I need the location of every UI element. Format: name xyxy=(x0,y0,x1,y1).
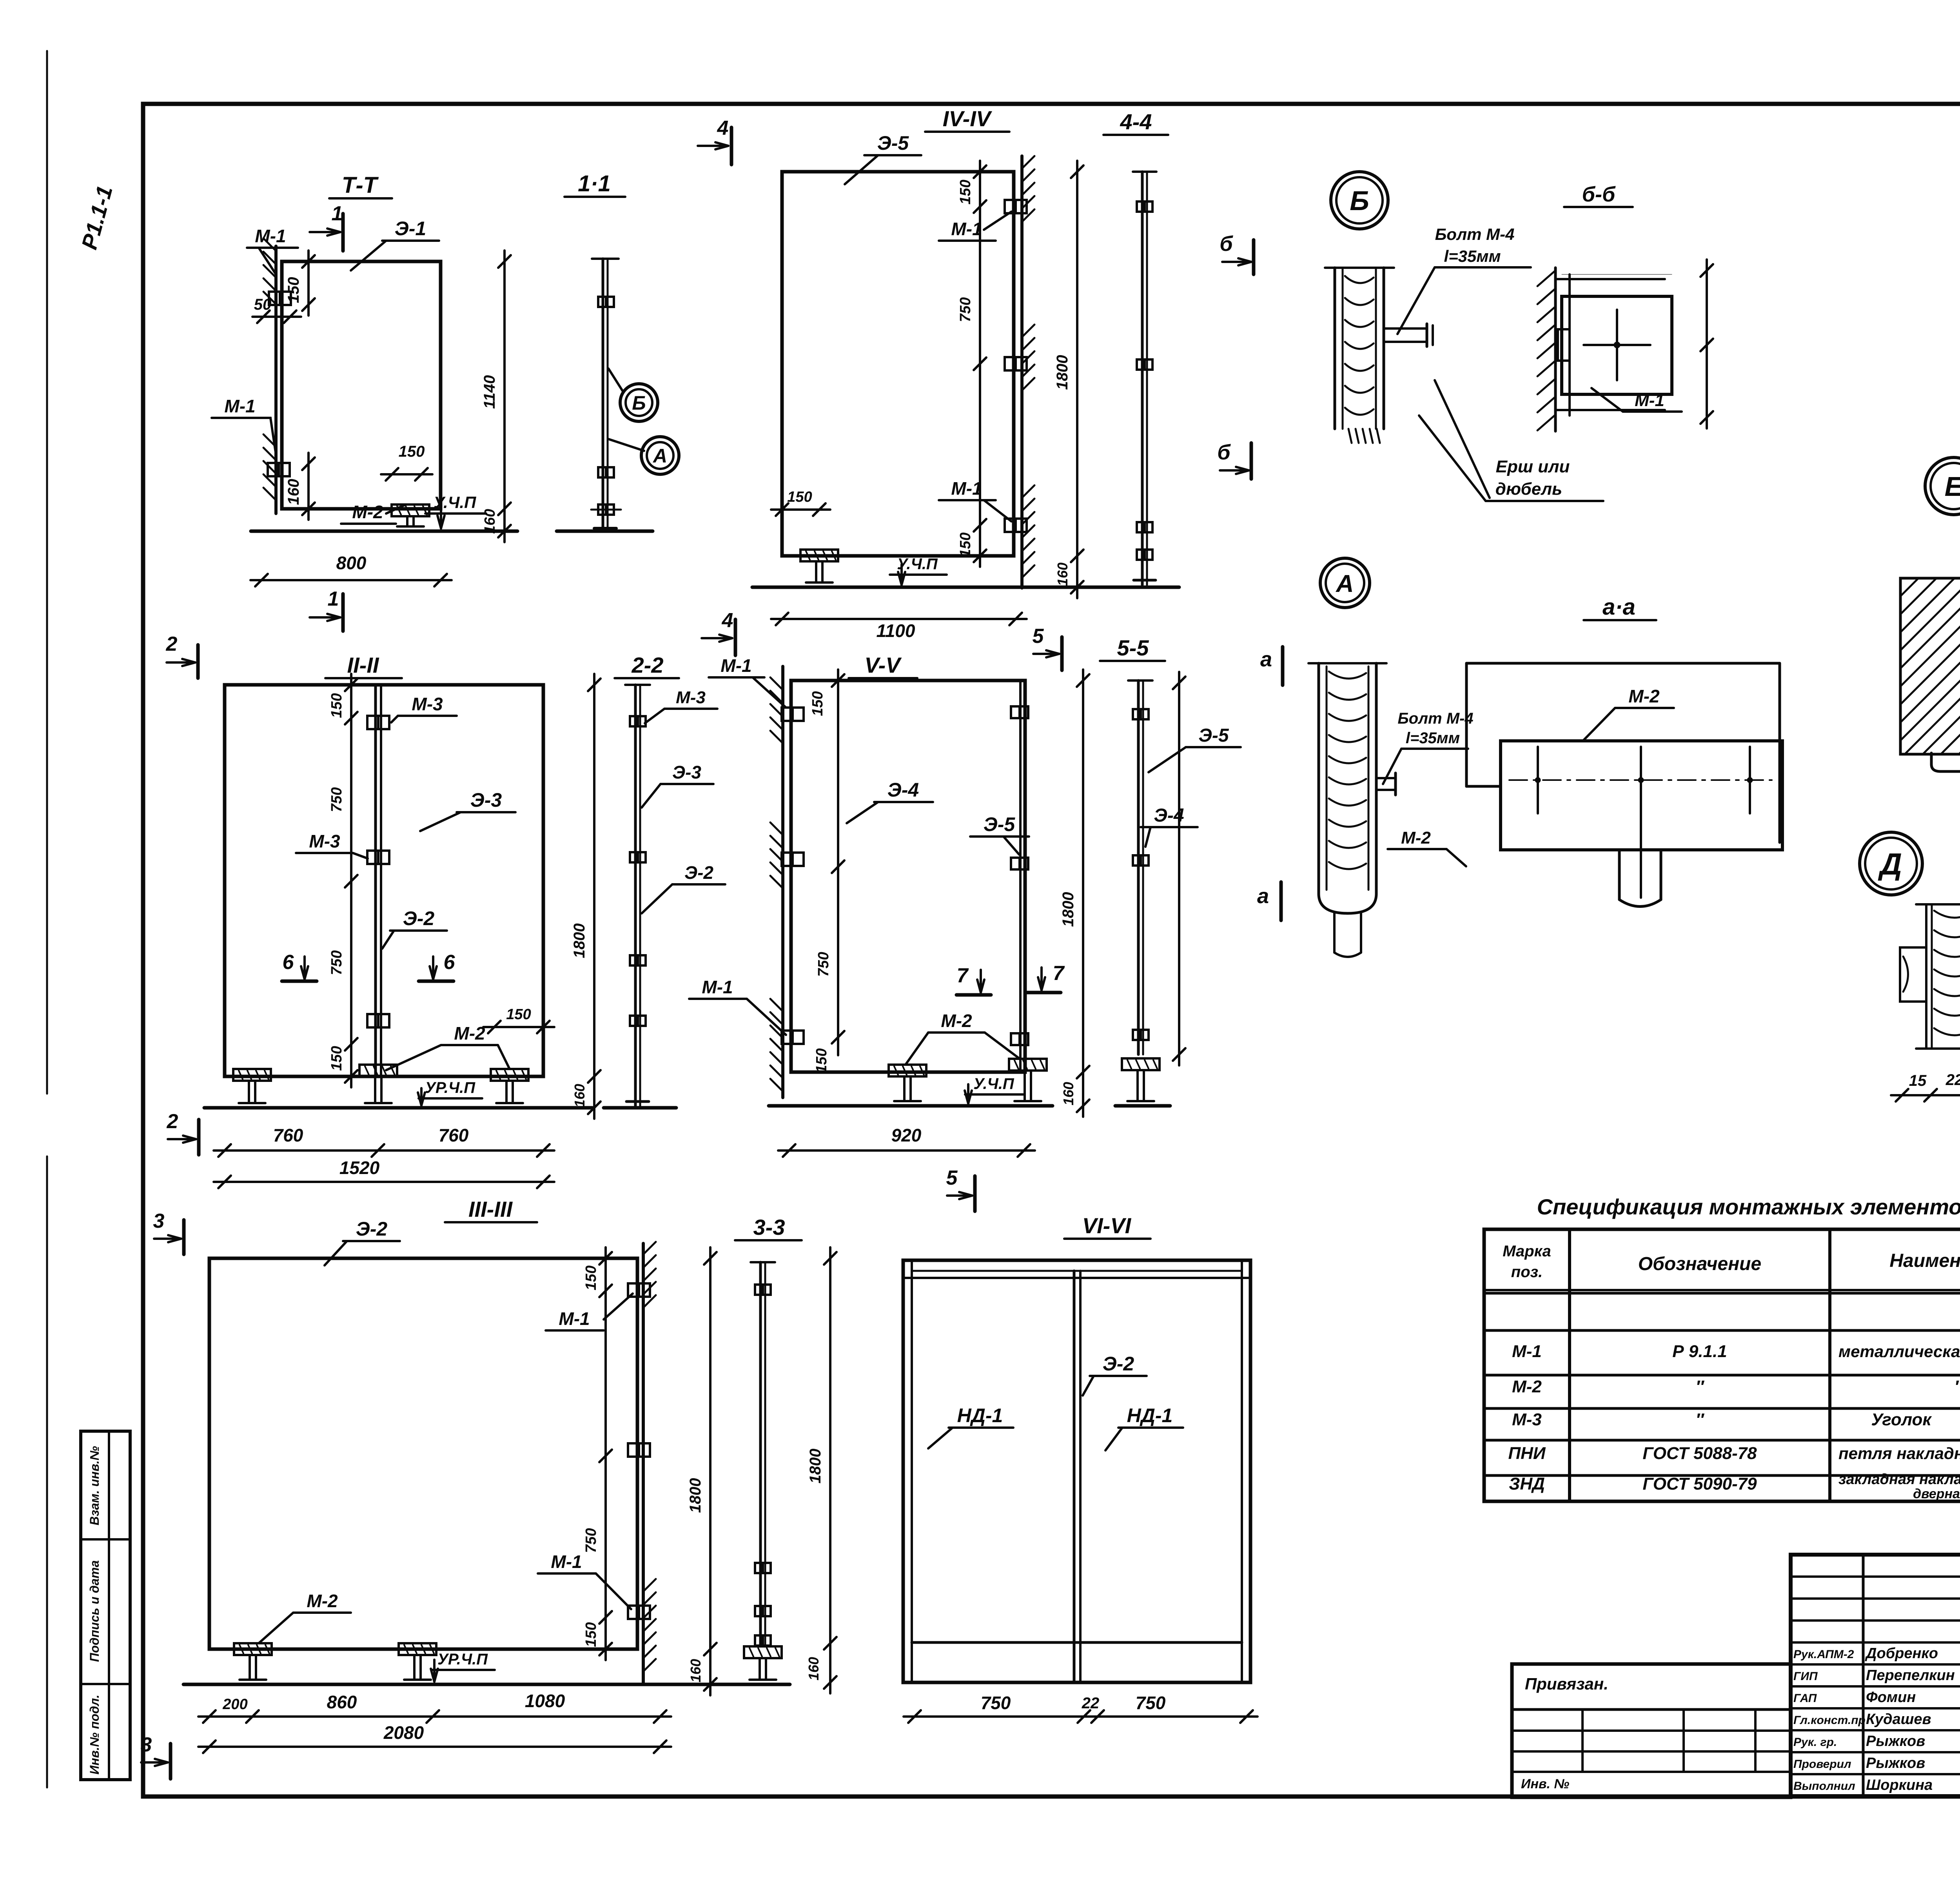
svg-text:160: 160 xyxy=(806,1657,822,1680)
svg-text:М-2: М-2 xyxy=(1628,686,1660,706)
svg-text:металлическая деталь: металлическая деталь xyxy=(1838,1342,1960,1361)
svg-text:200: 200 xyxy=(222,1696,247,1713)
svg-text:М-3: М-3 xyxy=(412,694,443,714)
svg-text:М-2: М-2 xyxy=(941,1011,972,1031)
svg-text:Э-4: Э-4 xyxy=(887,779,919,801)
svg-text:Рук.АПМ-2: Рук.АПМ-2 xyxy=(1793,1648,1854,1661)
svg-text:1140: 1140 xyxy=(481,375,498,409)
svg-text:5-5: 5-5 xyxy=(1117,635,1149,660)
svg-text:Шоркина: Шоркина xyxy=(1866,1777,1933,1793)
svg-text:НД-1: НД-1 xyxy=(1127,1405,1173,1426)
svg-text:Э-3: Э-3 xyxy=(672,762,701,782)
svg-text:У.Ч.П: У.Ч.П xyxy=(897,555,938,573)
svg-text:Б: Б xyxy=(1350,185,1369,216)
svg-text:Болт М-4: Болт М-4 xyxy=(1397,710,1473,727)
svg-text:160: 160 xyxy=(1054,563,1071,586)
svg-text:ЗНД: ЗНД xyxy=(1509,1474,1545,1494)
svg-text:920: 920 xyxy=(891,1125,922,1145)
svg-text:2: 2 xyxy=(166,633,178,655)
svg-text:7: 7 xyxy=(1053,962,1065,985)
svg-text:150: 150 xyxy=(787,489,812,505)
svg-text:Э-2: Э-2 xyxy=(403,907,435,929)
svg-text:У.Ч.П: У.Ч.П xyxy=(973,1075,1014,1092)
svg-text:150: 150 xyxy=(328,693,345,718)
svg-text:160: 160 xyxy=(572,1084,588,1107)
svg-text:М-1: М-1 xyxy=(1512,1342,1542,1361)
svg-text:Р 9.1.1: Р 9.1.1 xyxy=(1672,1342,1727,1361)
svg-text:750: 750 xyxy=(583,1528,599,1553)
svg-text:15: 15 xyxy=(1909,1072,1927,1089)
svg-text:М-1: М-1 xyxy=(551,1552,582,1572)
svg-text:1520: 1520 xyxy=(339,1158,380,1178)
svg-text:Перепелкин: Перепелкин xyxy=(1866,1667,1955,1684)
svg-text:ГОСТ 5088-78: ГОСТ 5088-78 xyxy=(1642,1444,1757,1463)
svg-text:Наименование: Наименование xyxy=(1889,1250,1960,1271)
svg-text:l=35мм: l=35мм xyxy=(1406,730,1460,747)
svg-text:150: 150 xyxy=(583,1622,599,1647)
svg-text:150: 150 xyxy=(399,443,425,460)
svg-text:6: 6 xyxy=(283,951,294,974)
svg-text:а: а xyxy=(1260,648,1272,671)
svg-text:1800: 1800 xyxy=(571,924,588,958)
svg-text:Ерш или: Ерш или xyxy=(1496,457,1570,476)
svg-text:V-V: V-V xyxy=(864,653,902,677)
svg-text:Э-2: Э-2 xyxy=(1103,1353,1134,1375)
svg-text:160: 160 xyxy=(688,1659,704,1682)
svg-text:Э-5: Э-5 xyxy=(1198,725,1229,746)
svg-text:1·1: 1·1 xyxy=(578,171,611,196)
svg-text:ГИП: ГИП xyxy=(1793,1670,1818,1683)
svg-text:150: 150 xyxy=(957,180,974,204)
svg-text:150: 150 xyxy=(583,1265,599,1290)
svg-text:М-1: М-1 xyxy=(702,977,733,997)
svg-text:1: 1 xyxy=(328,588,339,610)
svg-text:б: б xyxy=(1220,232,1233,256)
svg-text:М-2: М-2 xyxy=(352,502,383,522)
svg-text:150: 150 xyxy=(809,691,826,716)
svg-text:1800: 1800 xyxy=(1054,355,1071,390)
svg-text:4: 4 xyxy=(717,117,729,140)
svg-text:800: 800 xyxy=(336,553,367,573)
svg-text:Добренко: Добренко xyxy=(1865,1645,1938,1662)
svg-text:Д: Д xyxy=(1878,847,1902,881)
svg-text:М-2: М-2 xyxy=(454,1023,485,1043)
svg-text:Э-3: Э-3 xyxy=(470,789,502,811)
svg-text:Э-5: Э-5 xyxy=(877,132,909,154)
svg-text:1800: 1800 xyxy=(807,1449,824,1484)
svg-text:Взам. инв.№: Взам. инв.№ xyxy=(87,1446,102,1525)
svg-text:5: 5 xyxy=(1033,625,1044,648)
svg-text:150: 150 xyxy=(285,277,302,303)
svg-text:Гл.конст.пр: Гл.конст.пр xyxy=(1793,1714,1866,1727)
svg-text:750: 750 xyxy=(1136,1693,1166,1713)
svg-text:ГОСТ 5090-79: ГОСТ 5090-79 xyxy=(1642,1474,1757,1494)
svg-text:750: 750 xyxy=(328,787,345,812)
svg-text:160: 160 xyxy=(482,509,498,534)
svg-text:″: ″ xyxy=(1695,1410,1704,1429)
svg-text:дверная: дверная xyxy=(1913,1486,1960,1501)
svg-text:4: 4 xyxy=(722,609,733,632)
svg-text:Э-2: Э-2 xyxy=(356,1218,388,1240)
svg-text:750: 750 xyxy=(957,297,974,322)
svg-text:1800: 1800 xyxy=(687,1478,704,1513)
svg-text:Б: Б xyxy=(632,392,646,414)
svg-text:150: 150 xyxy=(957,532,974,557)
svg-text:А: А xyxy=(652,445,667,467)
svg-text:160: 160 xyxy=(1060,1082,1076,1105)
svg-text:Рыжков: Рыжков xyxy=(1866,1755,1925,1771)
svg-text:Выполнил: Выполнил xyxy=(1793,1780,1855,1793)
svg-text:М-1: М-1 xyxy=(559,1308,590,1329)
svg-text:Рук. гр.: Рук. гр. xyxy=(1793,1736,1837,1749)
svg-text:2: 2 xyxy=(167,1110,178,1133)
svg-text:УР.Ч.П: УР.Ч.П xyxy=(425,1079,475,1096)
svg-text:Е: Е xyxy=(1945,471,1960,502)
svg-text:″: ″ xyxy=(1954,1377,1960,1396)
svg-text:Э-1: Э-1 xyxy=(395,218,426,240)
svg-text:М-2: М-2 xyxy=(307,1591,338,1611)
svg-text:3: 3 xyxy=(153,1210,165,1232)
svg-text:750: 750 xyxy=(328,950,345,975)
svg-text:б: б xyxy=(1217,441,1231,464)
svg-text:М-3: М-3 xyxy=(676,688,706,707)
svg-text:150: 150 xyxy=(813,1048,830,1073)
svg-text:М-2: М-2 xyxy=(1512,1377,1542,1396)
svg-text:160: 160 xyxy=(285,479,302,505)
svg-text:Т-Т: Т-Т xyxy=(342,172,379,198)
svg-text:ПНИ: ПНИ xyxy=(1508,1444,1546,1463)
svg-text:1: 1 xyxy=(332,202,343,225)
svg-text:М-3: М-3 xyxy=(309,831,340,851)
svg-text:7: 7 xyxy=(957,964,969,987)
svg-text:НД-1: НД-1 xyxy=(957,1405,1003,1426)
svg-text:III-III: III-III xyxy=(468,1197,513,1221)
svg-text:22: 22 xyxy=(1945,1071,1960,1089)
svg-text:а·а: а·а xyxy=(1602,594,1635,620)
svg-text:l=35мм: l=35мм xyxy=(1444,247,1501,265)
svg-text:VI-VI: VI-VI xyxy=(1082,1213,1132,1238)
svg-text:А: А xyxy=(1335,570,1354,597)
svg-text:2080: 2080 xyxy=(383,1722,424,1743)
svg-text:5: 5 xyxy=(946,1167,958,1189)
svg-text:а: а xyxy=(1257,884,1269,908)
svg-text:150: 150 xyxy=(506,1006,531,1023)
svg-text:1080: 1080 xyxy=(525,1691,565,1711)
svg-text:Э-5: Э-5 xyxy=(984,813,1016,835)
svg-text:Спецификация монтажных элеме: Спецификация монтажных элементов xyxy=(1537,1194,1960,1219)
svg-text:Фомин: Фомин xyxy=(1866,1689,1916,1706)
svg-text:IV-IV: IV-IV xyxy=(943,106,993,131)
svg-text:ГАП: ГАП xyxy=(1793,1692,1817,1705)
svg-text:3-3: 3-3 xyxy=(753,1215,785,1239)
svg-text:860: 860 xyxy=(327,1692,357,1712)
svg-text:150: 150 xyxy=(328,1046,345,1071)
svg-text:поз.: поз. xyxy=(1511,1263,1543,1281)
svg-text:22: 22 xyxy=(1082,1695,1100,1712)
svg-text:Марка: Марка xyxy=(1503,1243,1551,1260)
svg-text:1100: 1100 xyxy=(877,621,915,641)
svg-text:1800: 1800 xyxy=(1060,892,1077,927)
svg-text:М-3: М-3 xyxy=(1512,1410,1542,1429)
svg-text:760: 760 xyxy=(439,1125,469,1145)
svg-text:750: 750 xyxy=(815,952,832,976)
svg-text:закладная накладка: закладная накладка xyxy=(1838,1471,1960,1488)
svg-text:3: 3 xyxy=(141,1733,152,1756)
svg-text:М-1: М-1 xyxy=(255,226,286,246)
svg-text:750: 750 xyxy=(981,1693,1011,1713)
svg-text:50: 50 xyxy=(254,296,272,313)
svg-text:Обозначение: Обозначение xyxy=(1638,1254,1761,1274)
svg-text:760: 760 xyxy=(273,1125,303,1145)
svg-text:петля накладная: петля накладная xyxy=(1838,1444,1960,1463)
svg-text:Э-2: Э-2 xyxy=(684,862,713,883)
svg-text:Рыжков: Рыжков xyxy=(1866,1733,1925,1749)
svg-text:М-1: М-1 xyxy=(224,396,255,416)
svg-text:Кудашев: Кудашев xyxy=(1866,1711,1931,1728)
svg-text:М-1: М-1 xyxy=(1635,391,1664,410)
svg-text:М-1: М-1 xyxy=(720,655,751,676)
svg-text:дюбель: дюбель xyxy=(1495,479,1562,499)
svg-text:б-б: б-б xyxy=(1582,183,1616,206)
svg-text:Р1.1-1: Р1.1-1 xyxy=(76,183,117,252)
svg-text:″: ″ xyxy=(1695,1377,1704,1396)
svg-text:4-4: 4-4 xyxy=(1120,109,1152,134)
svg-text:Инв. №: Инв. № xyxy=(1521,1777,1569,1791)
svg-text:Привязан.: Привязан. xyxy=(1525,1675,1608,1693)
svg-text:Проверил: Проверил xyxy=(1793,1758,1851,1771)
svg-text:М-1: М-1 xyxy=(951,478,982,499)
svg-text:УР.Ч.П: УР.Ч.П xyxy=(437,1651,488,1668)
svg-text:2-2: 2-2 xyxy=(632,653,664,677)
svg-text:Подпись и дата: Подпись и дата xyxy=(87,1560,102,1662)
svg-text:М-1: М-1 xyxy=(951,219,982,239)
svg-text:М-2: М-2 xyxy=(1401,828,1431,847)
svg-text:Болт М-4: Болт М-4 xyxy=(1435,225,1515,243)
svg-text:Инв.№ подл.: Инв.№ подл. xyxy=(87,1695,102,1775)
svg-text:Уголок: Уголок xyxy=(1871,1410,1932,1429)
svg-text:6: 6 xyxy=(444,951,456,974)
